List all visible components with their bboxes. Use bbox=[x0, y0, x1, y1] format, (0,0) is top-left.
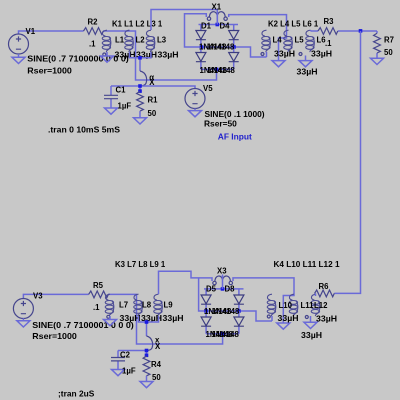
svg-text:R2: R2 bbox=[88, 18, 99, 27]
svg-text:X: X bbox=[149, 78, 155, 87]
svg-text:R3: R3 bbox=[324, 17, 335, 26]
svg-text:L10: L10 bbox=[279, 301, 293, 310]
svg-text:K4 L10 L11 L12 1: K4 L10 L11 L12 1 bbox=[274, 260, 341, 269]
svg-text:V1: V1 bbox=[26, 27, 36, 36]
svg-text:33µH: 33µH bbox=[158, 51, 179, 60]
svg-text:L2: L2 bbox=[136, 36, 146, 45]
svg-text:K3 L7 L8 L9 1: K3 L7 L8 L9 1 bbox=[115, 260, 166, 269]
svg-text:.tran 0 10mS 5mS: .tran 0 10mS 5mS bbox=[48, 125, 120, 135]
svg-text:R7: R7 bbox=[384, 35, 394, 44]
svg-text:D5: D5 bbox=[206, 284, 217, 293]
svg-text:33µH: 33µH bbox=[120, 314, 141, 323]
svg-text:50: 50 bbox=[152, 373, 161, 382]
svg-text:L5: L5 bbox=[295, 36, 305, 45]
svg-text:1N4148: 1N4148 bbox=[208, 66, 236, 75]
svg-text:1µF: 1µF bbox=[118, 102, 132, 111]
svg-text:1N4148: 1N4148 bbox=[207, 42, 235, 51]
svg-text:D8: D8 bbox=[225, 284, 236, 293]
svg-text:L7: L7 bbox=[119, 300, 128, 309]
svg-text:Rser=1000: Rser=1000 bbox=[32, 331, 77, 341]
svg-text:C1: C1 bbox=[116, 85, 127, 94]
svg-text:L3: L3 bbox=[157, 36, 167, 45]
svg-text:Rser=1000: Rser=1000 bbox=[27, 66, 72, 76]
svg-text:R4: R4 bbox=[151, 360, 162, 369]
svg-text:R1: R1 bbox=[148, 95, 159, 104]
svg-text:X3: X3 bbox=[217, 267, 227, 276]
svg-text:X: X bbox=[155, 342, 161, 351]
svg-text:R5: R5 bbox=[93, 281, 104, 290]
svg-text:D4: D4 bbox=[220, 21, 231, 30]
svg-text:33µH: 33µH bbox=[297, 67, 318, 76]
svg-text:V3: V3 bbox=[33, 291, 43, 300]
svg-text:L4: L4 bbox=[273, 36, 283, 45]
svg-text:V5: V5 bbox=[203, 84, 213, 93]
svg-text:L8: L8 bbox=[142, 300, 152, 309]
svg-text:AF Input: AF Input bbox=[218, 133, 252, 142]
svg-text:33µH: 33µH bbox=[301, 331, 322, 340]
svg-text:C2: C2 bbox=[120, 350, 131, 359]
svg-text:50: 50 bbox=[148, 109, 157, 118]
svg-text:;tran 2uS: ;tran 2uS bbox=[58, 389, 95, 399]
svg-text:1N4148: 1N4148 bbox=[212, 307, 240, 316]
svg-text:33µH: 33µH bbox=[274, 49, 295, 58]
svg-text:33µH: 33µH bbox=[163, 314, 184, 323]
svg-text:L12: L12 bbox=[314, 301, 328, 310]
svg-text:.1: .1 bbox=[93, 303, 100, 312]
svg-text:1N4148: 1N4148 bbox=[212, 330, 240, 339]
svg-text:D1: D1 bbox=[201, 21, 212, 30]
svg-text:Rser=50: Rser=50 bbox=[204, 118, 237, 128]
svg-text:1µF: 1µF bbox=[122, 366, 136, 375]
svg-text:33µH: 33µH bbox=[316, 314, 337, 323]
svg-text:.1: .1 bbox=[325, 39, 332, 48]
svg-text:50: 50 bbox=[384, 48, 393, 57]
svg-text:L11: L11 bbox=[301, 301, 315, 310]
svg-text:33µH: 33µH bbox=[278, 314, 299, 323]
svg-text:33µH: 33µH bbox=[311, 49, 332, 58]
svg-text:L9: L9 bbox=[164, 300, 174, 309]
svg-text:K1 L1 L2 L3 1: K1 L1 L2 L3 1 bbox=[112, 20, 163, 29]
svg-text:.1: .1 bbox=[89, 40, 96, 49]
svg-text:L1: L1 bbox=[115, 36, 125, 45]
svg-text:R6: R6 bbox=[319, 282, 330, 291]
svg-text:K2 L4 L5 L6 1: K2 L4 L5 L6 1 bbox=[268, 20, 319, 29]
